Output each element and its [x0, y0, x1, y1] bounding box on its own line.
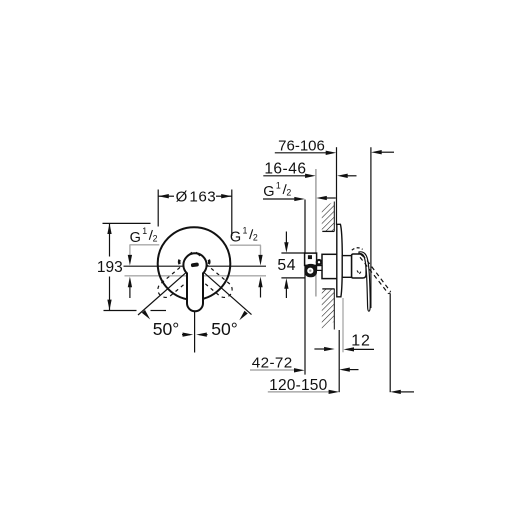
- dashed swung lever left: [195, 263, 236, 301]
- svg-text:163: 163: [189, 188, 216, 205]
- svg-text:1: 1: [276, 180, 281, 190]
- wall hatch lower band: [322, 289, 335, 330]
- G1/2 right arrow up: [258, 277, 262, 298]
- dim 16-46: [263, 161, 356, 178]
- 50deg leg right: [204, 272, 252, 320]
- knob side marker left: [178, 260, 181, 264]
- svg-text:1: 1: [142, 226, 147, 236]
- G1/2 left arrow up: [128, 277, 132, 298]
- extension line x339 bottom: [338, 330, 340, 392]
- label 50deg left: [153, 319, 180, 339]
- dashed swung lever right: [155, 263, 196, 301]
- gray line escutcheon front lower: [342, 298, 344, 352]
- label diameter 163: [176, 188, 217, 205]
- dim 12: [314, 332, 374, 351]
- lever blade side: [359, 252, 370, 311]
- label 50deg right: [211, 319, 238, 339]
- G1/2 right gray bracket: [230, 245, 261, 258]
- svg-text:50°: 50°: [153, 319, 180, 339]
- svg-text:76-106: 76-106: [278, 137, 325, 154]
- dim 54: [277, 232, 304, 299]
- extension line x371: [370, 147, 372, 308]
- dim 76-106: [275, 137, 394, 155]
- dashed rotation arc above knob: [352, 248, 363, 250]
- svg-text:16-46: 16-46: [264, 161, 306, 178]
- svg-text:2: 2: [253, 233, 258, 243]
- wall hatch upper band: [322, 202, 335, 232]
- dim 163 line and arrows: [158, 194, 232, 198]
- label G1/2 side: [263, 180, 336, 201]
- front centerline horizontal black: [124, 265, 267, 267]
- dim 163 extension left: [157, 190, 159, 227]
- extension line x305: [304, 200, 306, 375]
- knob top tick right: [196, 252, 200, 255]
- knob side marker right: [208, 260, 211, 264]
- label G1/2 front right: [230, 226, 258, 246]
- 50deg leg left: [138, 272, 186, 319]
- G1/2 left arrow down: [128, 255, 132, 266]
- G1/2 left gray bracket: [130, 245, 160, 259]
- connection nut dark: [304, 264, 317, 277]
- label 193: [97, 259, 123, 276]
- svg-text:193: 193: [97, 259, 123, 276]
- dim 193 extension top: [103, 222, 151, 224]
- svg-text:G: G: [263, 184, 274, 200]
- dim 42-72: [250, 355, 359, 373]
- dashed open lever lines: [360, 255, 391, 294]
- svg-text:2: 2: [153, 233, 158, 243]
- svg-text:42-72: 42-72: [252, 355, 293, 372]
- connection housing: [305, 253, 317, 265]
- extension line x336.5 top: [336, 147, 338, 225]
- escutcheon plate side: [337, 224, 343, 296]
- handle neck side: [342, 256, 351, 278]
- front gray line horizontal: [125, 275, 267, 277]
- svg-text:Ø: Ø: [176, 189, 188, 206]
- dim 120-150: [268, 377, 414, 394]
- G1/2 right arrow down: [258, 255, 262, 266]
- handle center dark blob: [191, 262, 199, 267]
- svg-text:2: 2: [286, 188, 291, 198]
- small nipple ring: [316, 259, 323, 270]
- svg-text:G: G: [230, 229, 241, 245]
- lever keyhole handle front: [183, 253, 206, 311]
- valve body side: [322, 254, 338, 278]
- dashed swing vee mark: [357, 271, 362, 275]
- angular arrow at centerline right: [196, 332, 207, 336]
- vertical centerline below stem: [194, 312, 196, 353]
- label G1/2 front left: [130, 226, 158, 246]
- housing black square: [308, 255, 312, 259]
- angular baseline left: [104, 310, 167, 312]
- svg-text:12: 12: [351, 332, 370, 349]
- svg-text:1: 1: [243, 226, 248, 236]
- extension line x389: [389, 294, 391, 393]
- dim 163 extension right: [231, 190, 233, 237]
- escutcheon circle front: [158, 227, 231, 300]
- svg-text:54: 54: [277, 257, 296, 274]
- dim 193 line and arrows: [107, 223, 111, 310]
- angular arrow at centerline left: [182, 332, 193, 336]
- knob top tick left: [188, 252, 192, 255]
- svg-text:50°: 50°: [211, 319, 238, 339]
- svg-text:G: G: [130, 230, 141, 246]
- handle knob side: [352, 254, 367, 278]
- wall gray surface line: [315, 169, 317, 297]
